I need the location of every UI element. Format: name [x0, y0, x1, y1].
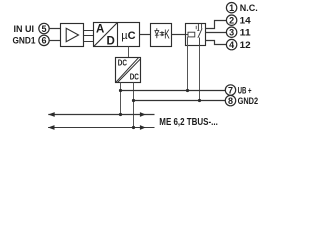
DC/DC converter box — [116, 58, 141, 83]
opto relay driver box — [151, 24, 172, 47]
DC/DC diagonal 2 — [118, 59, 141, 82]
svg-text:14: 14 — [240, 16, 252, 27]
svg-text:GND2: GND2 — [238, 96, 259, 107]
GND2 rail wire — [134, 100, 226, 102]
relay coil — [186, 32, 195, 37]
wire DC/DC right down to bus — [133, 83, 135, 128]
junction dot bus2 — [132, 126, 135, 129]
A/D converter and microcontroller box — [94, 23, 140, 47]
wire opto to relay — [172, 34, 186, 36]
svg-text:A: A — [96, 23, 104, 35]
junction dot bus1 — [119, 113, 122, 116]
opto light arrows — [160, 32, 164, 36]
TBUS wire lower — [48, 127, 154, 129]
svg-text:3: 3 — [229, 28, 234, 38]
amplifier triangle symbol — [66, 28, 78, 41]
wire relay left down to UB+ rail — [187, 37, 189, 91]
svg-text:11: 11 — [240, 28, 252, 39]
relay box — [186, 24, 206, 46]
wire amp to ADC bus line 1 — [84, 30, 94, 32]
wire amp to ADC bus line 2 — [84, 35, 94, 37]
svg-text:5: 5 — [41, 24, 46, 34]
wire relay to terminal 4 — [206, 41, 227, 45]
wire uC down to DC/DC — [128, 47, 130, 58]
wire relay right down to GND2 rail — [199, 46, 201, 101]
TBUS upper left arrowhead — [48, 112, 55, 117]
svg-text:DC: DC — [130, 72, 139, 82]
junction dot UB+ at DC/DC — [119, 89, 122, 92]
opto LED symbol — [155, 28, 159, 38]
svg-text:ME 6,2 TBUS-...: ME 6,2 TBUS-... — [159, 117, 218, 128]
svg-text:12: 12 — [240, 40, 251, 51]
terminal 7 — [225, 85, 235, 96]
divider A/D vs uC — [117, 23, 119, 47]
svg-text:µC: µC — [121, 30, 135, 42]
terminal 5 — [39, 23, 49, 34]
terminal 4 — [226, 39, 236, 50]
svg-text:1: 1 — [229, 3, 234, 13]
svg-text:6: 6 — [41, 36, 46, 46]
svg-text:IN UI: IN UI — [14, 24, 35, 35]
TBUS wire upper — [48, 114, 154, 116]
svg-text:K: K — [164, 28, 170, 42]
junction dot relay UB+ — [186, 89, 189, 92]
wire relay to terminal 3 — [206, 32, 227, 34]
TBUS lower left arrowhead — [48, 125, 55, 130]
amplifier box — [61, 24, 84, 47]
terminal 1 — [226, 3, 236, 14]
TBUS lower right arrowhead — [140, 125, 146, 130]
svg-text:4: 4 — [229, 40, 234, 50]
terminal 8 — [225, 95, 235, 106]
junction dot relay GND2 — [198, 99, 201, 102]
wire uC to opto box — [140, 34, 151, 36]
junction dot GND2 at DC/DC — [132, 99, 135, 102]
DC/DC diagonal 1 — [116, 58, 138, 82]
svg-text:8: 8 — [228, 96, 233, 106]
wire relay to terminal 2 — [206, 21, 227, 29]
wire amp to ADC bus line 3 — [84, 41, 94, 43]
svg-text:2: 2 — [229, 16, 234, 26]
svg-text:N.C.: N.C. — [240, 3, 258, 14]
terminal 6 — [39, 35, 49, 46]
terminal 3 — [226, 27, 236, 38]
svg-text:DC: DC — [118, 58, 127, 68]
relay contact symbol — [196, 24, 202, 46]
TBUS upper right arrowhead — [140, 112, 146, 117]
svg-text:7: 7 — [228, 85, 233, 95]
A/D diagonal — [94, 23, 117, 47]
svg-text:D: D — [107, 36, 115, 48]
wire DC/DC left down to bus — [120, 83, 122, 115]
svg-text:UB +: UB + — [238, 85, 252, 96]
UB+ rail wire — [121, 90, 226, 92]
terminal 2 — [226, 15, 236, 25]
wire terminal5 to amp — [49, 28, 60, 30]
svg-text:GND1: GND1 — [13, 36, 37, 47]
wire terminal6 to amp — [49, 40, 60, 42]
